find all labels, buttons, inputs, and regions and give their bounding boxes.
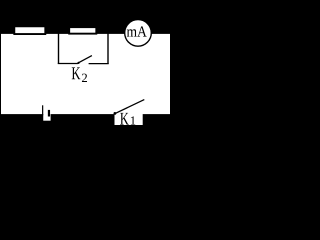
battery B1 long thin plate xyxy=(42,105,44,115)
circuit loop interior (white panel; its outer edges are the top, left, bottom and right wires) xyxy=(1,34,170,114)
label K1 subscript 1 xyxy=(131,116,135,124)
battery B1 short thick plate xyxy=(48,110,50,117)
label K2 subscript 2 xyxy=(82,74,87,82)
switch K2 pivot xyxy=(77,62,79,64)
K2 branch bottom-right wire xyxy=(89,63,109,65)
ammeter label mA xyxy=(127,29,137,36)
resistor R1 (left box on top wire) xyxy=(14,26,45,34)
switch K1 lever (open) xyxy=(115,100,145,114)
K2 branch bottom-left wire xyxy=(58,63,78,65)
K2 branch left vertical wire xyxy=(58,34,60,64)
label K1 white backing box xyxy=(115,113,143,125)
switch K1 pivot xyxy=(114,112,117,115)
ammeter U1 (mA) xyxy=(125,20,152,47)
label K1 letter K xyxy=(120,113,129,125)
K2 branch right vertical wire xyxy=(107,34,109,64)
battery B1 white gap in bottom wire xyxy=(43,113,50,121)
switch K2 lever (open) xyxy=(78,56,92,63)
label K2 letter K xyxy=(72,67,81,79)
resistor R2 (box on top wire above switch K2) xyxy=(69,27,96,34)
